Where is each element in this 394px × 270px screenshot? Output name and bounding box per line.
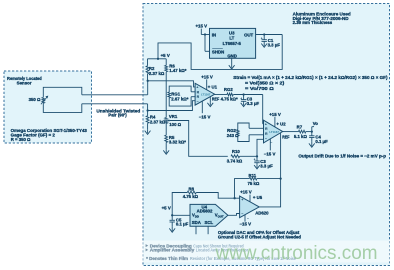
svg-text:−: −: [247, 216, 249, 220]
svg-text:Vo: Vo: [313, 121, 319, 126]
svg-text:RG2: RG2: [224, 87, 233, 92]
svg-text:3.3 μF: 3.3 μF: [268, 43, 281, 48]
svg-text:Sensor: Sensor: [17, 80, 32, 85]
svg-text:−15 V: −15 V: [199, 114, 211, 119]
svg-text:R8: R8: [189, 187, 195, 192]
svg-text:RG2: RG2: [227, 128, 236, 133]
svg-text:REF: REF: [282, 134, 290, 139]
svg-text:Strain = Vo/(1 mA × (1 + 24.2: Strain = Vo/(1 mA × (1 + 24.2 kΩ/RG1) × …: [233, 75, 388, 80]
svg-text:+ U2: + U2: [276, 122, 286, 127]
svg-text:R: R: [197, 95, 200, 99]
svg-text:−15 V: −15 V: [264, 151, 276, 156]
svg-text:2.37 kΩ: 2.37 kΩ: [149, 71, 165, 76]
svg-text:R = 350 Ω: R = 350 Ω: [11, 137, 31, 142]
svg-text:R10: R10: [232, 149, 240, 154]
svg-text:−15 V: −15 V: [239, 222, 251, 227]
svg-text:LT: LT: [229, 36, 234, 41]
svg-text:0.1 μF: 0.1 μF: [176, 222, 189, 227]
svg-text:R: R: [197, 90, 200, 94]
svg-text:OUT: OUT: [244, 32, 253, 37]
svg-text:LT1167: LT1167: [201, 93, 211, 97]
svg-text:GND: GND: [227, 53, 237, 58]
svg-text:+: +: [240, 96, 242, 100]
svg-text:= Vo/700 Ω: = Vo/700 Ω: [245, 86, 275, 91]
svg-text:+15 V: +15 V: [201, 74, 213, 79]
svg-text:3.3 μF: 3.3 μF: [260, 163, 273, 168]
svg-text:www.cntronics.com: www.cntronics.com: [215, 242, 378, 264]
svg-text:+: +: [254, 158, 256, 162]
svg-text:3.32 kΩ*: 3.32 kΩ*: [169, 139, 186, 144]
svg-text:R7: R7: [297, 124, 303, 129]
svg-text:= Vo/(350 Ω × 2): = Vo/(350 Ω × 2): [245, 81, 285, 86]
svg-text:AD620: AD620: [255, 211, 269, 216]
svg-text:+ U5: + U5: [253, 195, 263, 200]
svg-text:IN: IN: [212, 32, 216, 37]
svg-text:0.1 μF: 0.1 μF: [315, 139, 328, 144]
svg-text:2.39 mm Thickness: 2.39 mm Thickness: [293, 20, 333, 25]
svg-text:R: R: [265, 132, 268, 136]
svg-text:+15 V: +15 V: [195, 23, 207, 28]
svg-text:RG1: RG1: [171, 92, 180, 97]
svg-text:100 Ω: 100 Ω: [169, 122, 181, 127]
svg-text:350 Ω: 350 Ω: [29, 97, 41, 102]
svg-text:R: R: [265, 127, 268, 131]
svg-text:R4: R4: [150, 115, 156, 120]
svg-text:+: +: [261, 36, 263, 40]
svg-text:Pair (90′): Pair (90′): [108, 113, 127, 118]
svg-text:SHDN: SHDN: [212, 49, 224, 54]
svg-text:LT6657-5: LT6657-5: [223, 41, 242, 46]
svg-text:+ U1: + U1: [208, 85, 218, 90]
svg-text:243 Ω: 243 Ω: [227, 133, 239, 138]
svg-text:2.67 kΩ*: 2.67 kΩ*: [171, 97, 188, 102]
svg-text:−: −: [270, 141, 272, 145]
svg-text:4.75 kΩ: 4.75 kΩ: [183, 194, 199, 199]
svg-text:R11: R11: [248, 173, 256, 178]
svg-text:2.37 kΩ: 2.37 kΩ: [150, 119, 166, 124]
svg-text:1.47 kΩ*: 1.47 kΩ*: [169, 68, 186, 73]
svg-text:5.1 kΩ: 5.1 kΩ: [294, 134, 308, 139]
svg-text:REF: REF: [212, 97, 220, 102]
svg-text:Output Drift Due to 1/f Noise: Output Drift Due to 1/f Noise = ~2 mV p-…: [298, 153, 386, 158]
svg-text:4.75 kΩ*: 4.75 kΩ*: [221, 97, 238, 102]
svg-text:R2: R2: [149, 66, 155, 71]
svg-text:SDA: SDA: [192, 220, 201, 225]
svg-text:LT1167: LT1167: [269, 130, 279, 134]
svg-text:+5 V: +5 V: [162, 205, 171, 210]
svg-text:VR1: VR1: [169, 114, 178, 119]
svg-text:+5 V: +5 V: [161, 53, 170, 58]
svg-text:+15 V: +15 V: [240, 190, 252, 195]
svg-text:Ground U2-5 if Offset Adjust N: Ground U2-5 if Offset Adjust Not Needed: [218, 234, 301, 239]
svg-text:+15 V: +15 V: [269, 112, 281, 117]
svg-text:SCL: SCL: [205, 220, 214, 225]
svg-text:3.3 μF: 3.3 μF: [247, 101, 260, 106]
svg-text:AD5602: AD5602: [197, 209, 213, 214]
svg-text:3.74 kΩ: 3.74 kΩ: [227, 159, 243, 164]
svg-text:U3: U3: [229, 30, 235, 35]
svg-text:75 kΩ: 75 kΩ: [248, 181, 260, 186]
